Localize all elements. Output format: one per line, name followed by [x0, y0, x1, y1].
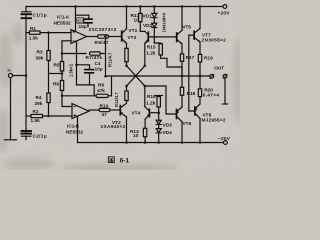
wire: IC1B V- pin to bottom rail — [77, 116, 79, 143]
svg-text:R2: R2 — [33, 109, 39, 115]
svg-text:R18: R18 — [187, 91, 196, 97]
wire: diode column to R15 — [154, 42, 160, 45]
svg-text:VT5: VT5 — [182, 25, 191, 31]
svg-text:R5: R5 — [54, 62, 60, 68]
node: VD1 rail junction — [153, 5, 156, 8]
wire: VT5 collector to rail — [181, 7, 183, 31]
svg-text:+20V: +20V — [218, 11, 231, 17]
transistor VT7 — [194, 29, 200, 43]
resistor R20 — [198, 76, 201, 104]
resistor R1 — [26, 31, 71, 34]
wire: crossing lower-right to VT4 collector — [144, 86, 146, 107]
svg-text:VT4: VT4 — [132, 111, 141, 117]
wire: VT3 emitter to crossing — [144, 43, 146, 65]
wire: VT7 collector to rail — [199, 7, 201, 29]
node: R13 rail junction — [139, 5, 142, 8]
svg-text:NE5532: NE5532 — [54, 20, 72, 26]
node: R6 bottom junction — [61, 94, 64, 97]
wire: C4 bottom to R8 — [77, 85, 95, 96]
op-amp IC1A — [71, 30, 87, 44]
svg-text:MJ2955×2: MJ2955×2 — [202, 118, 226, 124]
node: VT2 emitter rail junction — [125, 141, 128, 144]
wire: VT1 collector to rail — [126, 7, 128, 29]
svg-text:R7/47k: R7/47k — [86, 55, 103, 61]
svg-text:47: 47 — [102, 112, 108, 118]
node: R4-R2 junction — [47, 115, 50, 118]
caption 图 6-1 — [108, 157, 129, 165]
svg-text:NE5532: NE5532 — [66, 129, 84, 135]
wire: crossing lower-right to VT6 base — [145, 86, 177, 114]
resistor R3 — [47, 33, 50, 74]
wire: R6 column to IC1B inverting input — [62, 106, 72, 108]
node: R17 OUT junction — [181, 75, 184, 78]
node: R14 rail junction — [144, 141, 147, 144]
svg-text:VT1: VT1 — [129, 28, 138, 34]
wire: left vertical line — [25, 18, 27, 130]
wire: IC1B output to R10 — [89, 109, 99, 111]
node: VD4 rail junction — [157, 141, 160, 144]
node: R19 OUT junction — [199, 75, 202, 78]
wire: VT1 emitter to R11 — [126, 43, 128, 48]
wire: R15 bottom to output node — [161, 58, 182, 76]
transistor VT6 — [177, 107, 183, 122]
diode VD2 — [152, 18, 157, 43]
wire: IC1A output — [87, 36, 98, 38]
wire: input to left line — [13, 75, 26, 77]
paper smudges — [0, 23, 243, 173]
wire: OUT horizontal — [106, 75, 210, 77]
svg-text:R16: R16 — [147, 94, 156, 100]
diode VD1 — [152, 7, 157, 18]
wire: VT2 emitter to bottom rail — [126, 117, 128, 143]
svg-text:C4: C4 — [95, 61, 101, 67]
resistor R17 — [180, 44, 183, 76]
resistor R9 — [98, 35, 122, 38]
resistor R6 — [60, 81, 63, 107]
wire: IC1A feedback R7 path — [62, 53, 86, 55]
node: V+ rail junction — [74, 5, 77, 8]
node: VT7 collector rail junction — [199, 5, 202, 8]
svg-text:R9/47: R9/47 — [95, 40, 109, 46]
resistor R5 — [60, 54, 63, 81]
svg-text:−20V: −20V — [218, 136, 231, 142]
svg-text:0.47×4: 0.47×4 — [203, 92, 220, 98]
node: feedback riser top — [104, 35, 106, 37]
svg-text:1.5k: 1.5k — [31, 118, 41, 124]
node: VT5 collector rail junction — [181, 5, 184, 8]
svg-text:R1: R1 — [30, 26, 36, 32]
resistor R8 — [96, 94, 112, 97]
svg-text:C2/1μ: C2/1μ — [33, 133, 47, 139]
svg-text:1.2k: 1.2k — [146, 101, 156, 107]
transistor VT1 — [122, 29, 127, 44]
svg-text:VT6: VT6 — [183, 121, 192, 127]
terminal OUT return — [222, 74, 228, 104]
diode VD3 — [156, 120, 161, 124]
svg-text:IC1•A: IC1•A — [57, 15, 70, 21]
svg-text:C1/1μ: C1/1μ — [33, 12, 47, 18]
resistor R2 — [26, 114, 72, 117]
transistor VT8 — [195, 104, 200, 118]
svg-text:R10: R10 — [100, 104, 109, 110]
node: crossing upper-right — [144, 65, 147, 68]
svg-text:39k: 39k — [36, 56, 44, 62]
node: R5 top junction — [61, 52, 64, 55]
diode VD4 — [156, 125, 161, 143]
wire: bottom -20V rail — [78, 142, 224, 144]
svg-text:R11/4.7: R11/4.7 — [108, 52, 113, 67]
resistor R4 — [47, 74, 50, 117]
capacitor C1 — [22, 7, 32, 19]
wire: input ground stub — [5, 78, 17, 140]
svg-text:2SA940×2: 2SA940×2 — [101, 124, 126, 130]
transistor VT3 — [140, 31, 148, 43]
resistor R16 — [155, 96, 163, 122]
svg-text:IC1•B: IC1•B — [67, 123, 80, 129]
node: diode column base junction — [153, 36, 156, 39]
svg-text:R19: R19 — [204, 55, 213, 61]
svg-text:R4: R4 — [36, 95, 42, 101]
terminal OUT hot — [210, 74, 214, 78]
wire: IC1A V- pin down — [76, 41, 78, 85]
op-amp IC1B — [72, 104, 89, 119]
wire: feedback riser — [105, 37, 107, 77]
node: input junction — [25, 74, 28, 77]
node: VT6 collector rail junction — [181, 141, 184, 144]
svg-text:VT3: VT3 — [128, 35, 137, 41]
resistor R10 — [99, 108, 120, 111]
node: crossing upper-left — [125, 65, 128, 68]
svg-text:VD3: VD3 — [163, 122, 173, 128]
wire: R3 bottom to R5 column — [49, 73, 63, 75]
svg-text:10: 10 — [134, 17, 140, 23]
terminal input — [8, 73, 12, 77]
node: crossing lower-right — [144, 85, 147, 88]
svg-text:10: 10 — [133, 133, 139, 139]
svg-text:2SC2073×2: 2SC2073×2 — [89, 27, 117, 33]
svg-text:R8: R8 — [98, 82, 104, 88]
svg-text:1.5k: 1.5k — [29, 36, 39, 42]
capacitor C2 — [22, 131, 32, 140]
capacitor C3 — [76, 15, 93, 27]
svg-text:2N3055×2: 2N3055×2 — [202, 37, 227, 43]
svg-text:OUT: OUT — [214, 66, 224, 72]
node: crossing lower-left — [125, 85, 128, 88]
svg-text:C3: C3 — [78, 19, 84, 25]
wire: VT3 base to VT5 base — [148, 36, 176, 38]
node: riser to OUT wire — [104, 75, 107, 78]
capacitor C4 — [85, 70, 94, 85]
terminal -20V — [224, 141, 228, 145]
svg-text:VD1: VD1 — [142, 14, 152, 20]
wire: C4 top link — [77, 65, 90, 69]
terminal +20V — [223, 5, 227, 9]
svg-text:VT8: VT8 — [203, 112, 212, 118]
svg-text:VD4: VD4 — [163, 130, 173, 136]
resistor R11 — [125, 48, 128, 66]
svg-text:in: in — [8, 69, 11, 73]
transistor VT2 — [120, 103, 126, 117]
resistor R15 — [159, 44, 162, 59]
svg-text:47k: 47k — [97, 88, 105, 94]
svg-text:39k: 39k — [35, 101, 43, 107]
svg-text:10μ: 10μ — [79, 24, 87, 30]
svg-text:6-1: 6-1 — [120, 157, 130, 164]
node: VT4 base junction — [157, 111, 160, 114]
transistor VT4 — [145, 107, 150, 120]
resistor R19 — [198, 42, 201, 76]
svg-text:R15: R15 — [147, 45, 156, 51]
resistor R18 — [180, 76, 183, 107]
resistor R14 — [143, 119, 146, 142]
resistor R12 — [125, 87, 128, 103]
node: VT1 collector rail junction — [125, 5, 128, 8]
node: R5-R6 junction — [61, 72, 64, 75]
svg-text:10μ: 10μ — [95, 67, 103, 73]
svg-text:R12/4.7: R12/4.7 — [114, 92, 119, 107]
svg-text:R17: R17 — [186, 55, 195, 61]
node: VT8 collector rail junction — [199, 141, 202, 144]
paper background — [0, 0, 240, 170]
resistor R7 — [90, 52, 106, 55]
wire: VT7-VT8 base riser — [189, 35, 195, 111]
wire: VT6 collector to rail — [181, 122, 183, 143]
wire: R8 riser to OUT wire — [111, 76, 113, 96]
svg-text:R20: R20 — [204, 87, 213, 93]
node: R1-R3 junction — [47, 31, 50, 34]
svg-text:1.2k: 1.2k — [146, 51, 156, 57]
wire: R6 junction to R8 — [62, 95, 96, 97]
wire: IC1A V+ pin to rail — [75, 7, 77, 32]
wire: crossing diagonal A — [127, 66, 145, 86]
wire: crossing diagonal B — [127, 66, 145, 86]
svg-text:R3: R3 — [37, 49, 43, 55]
svg-text:1.5k×2: 1.5k×2 — [69, 63, 74, 77]
node: R7-C4 junction — [75, 64, 78, 67]
resistor R13 — [139, 7, 142, 32]
svg-text:1N4148×4: 1N4148×4 — [161, 12, 166, 32]
svg-text:R6: R6 — [53, 81, 59, 87]
transistor VT5 — [177, 30, 182, 44]
wire: top +20V rail — [26, 6, 223, 8]
wire: IC1A inverting input from R5 column — [62, 41, 71, 54]
wire: VT4 base to R16 column — [149, 112, 158, 114]
svg-text:VD2: VD2 — [143, 23, 153, 29]
wire: VT8 collector to rail — [199, 118, 201, 142]
